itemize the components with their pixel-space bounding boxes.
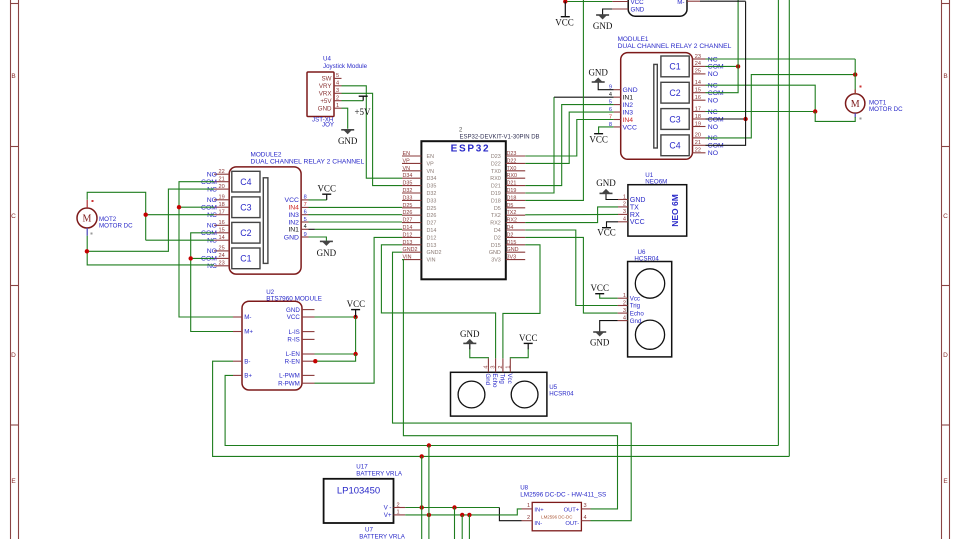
svg-text:Gnd: Gnd	[630, 318, 642, 325]
svg-text:3V3: 3V3	[491, 258, 501, 264]
svg-text:4: 4	[584, 515, 587, 521]
svg-text:4: 4	[623, 217, 626, 223]
svg-text:22: 22	[218, 169, 224, 175]
svg-text:D35: D35	[427, 184, 437, 190]
svg-text:23: 23	[695, 54, 701, 60]
svg-text:D33: D33	[427, 198, 437, 204]
svg-text:VP: VP	[403, 158, 411, 164]
svg-text:D: D	[943, 352, 948, 359]
svg-text:D27: D27	[427, 221, 437, 227]
svg-text:TX: TX	[630, 204, 639, 211]
svg-text:6: 6	[304, 210, 307, 216]
svg-text:BATTERY VRLA: BATTERY VRLA	[359, 534, 406, 539]
svg-text:COM: COM	[201, 230, 217, 237]
svg-text:+5V: +5V	[320, 98, 332, 105]
svg-text:15: 15	[218, 228, 224, 234]
svg-text:7: 7	[304, 202, 307, 208]
svg-text:8: 8	[304, 195, 307, 201]
svg-text:Vcc: Vcc	[630, 295, 640, 302]
svg-text:D19: D19	[491, 191, 501, 197]
svg-text:NO: NO	[207, 197, 217, 204]
svg-text:NC: NC	[207, 212, 217, 219]
svg-text:COM: COM	[201, 205, 217, 212]
svg-text:RX0: RX0	[490, 176, 501, 182]
svg-text:IN4: IN4	[623, 117, 634, 124]
svg-text:D13: D13	[403, 240, 413, 246]
svg-text:M: M	[83, 214, 92, 225]
svg-text:TX0: TX0	[491, 169, 501, 175]
svg-text:GND: GND	[284, 234, 299, 241]
svg-text:VP: VP	[427, 161, 435, 167]
svg-text:Trig: Trig	[499, 373, 506, 384]
svg-text:GND2: GND2	[403, 247, 418, 253]
svg-text:COM: COM	[708, 143, 724, 150]
svg-text:M-: M-	[677, 0, 684, 6]
svg-text:9: 9	[304, 232, 307, 238]
svg-text:14: 14	[218, 235, 224, 241]
svg-text:D22: D22	[491, 161, 501, 167]
svg-text:ESP32-DEVKIT-V1-30PIN DB: ESP32-DEVKIT-V1-30PIN DB	[460, 135, 540, 141]
svg-text:Gnd: Gnd	[484, 373, 491, 385]
svg-text:C3: C3	[240, 203, 251, 213]
svg-text:2: 2	[527, 515, 530, 521]
svg-text:C4: C4	[240, 177, 251, 187]
svg-text:Echo: Echo	[491, 373, 498, 388]
svg-text:3: 3	[623, 308, 626, 314]
svg-text:3V3: 3V3	[507, 255, 517, 261]
svg-text:GND: GND	[318, 105, 332, 112]
svg-text:4: 4	[304, 224, 307, 230]
svg-text:DUAL CHANNEL RELAY 2 CHANNEL: DUAL CHANNEL RELAY 2 CHANNEL	[618, 43, 732, 50]
svg-text:NO: NO	[207, 248, 217, 255]
svg-text:GND: GND	[631, 7, 645, 14]
svg-text:VCC: VCC	[631, 0, 645, 6]
svg-text:C: C	[943, 213, 948, 220]
svg-text:D13: D13	[427, 243, 437, 249]
svg-text:VCC: VCC	[519, 333, 538, 343]
svg-text:D15: D15	[507, 240, 517, 246]
svg-text:GND: GND	[460, 329, 480, 339]
svg-text:D5: D5	[507, 203, 514, 209]
svg-text:+5V: +5V	[354, 107, 371, 117]
svg-text:VCC: VCC	[317, 184, 336, 194]
svg-text:16: 16	[695, 95, 701, 101]
svg-text:Vcc: Vcc	[506, 373, 513, 383]
svg-text:D35: D35	[403, 181, 413, 187]
svg-text:VRX: VRX	[319, 91, 332, 98]
svg-text:C2: C2	[240, 228, 251, 238]
svg-text:VCC: VCC	[590, 283, 609, 293]
svg-text:GND: GND	[588, 68, 608, 78]
svg-text:VCC: VCC	[623, 124, 637, 131]
svg-text:1: 1	[336, 103, 339, 109]
svg-text:COM: COM	[201, 256, 217, 263]
svg-text:R-PWM: R-PWM	[278, 380, 300, 387]
svg-text:IN3: IN3	[623, 109, 634, 116]
svg-text:D21: D21	[491, 184, 501, 190]
svg-text:U17: U17	[356, 464, 368, 471]
svg-text:1: 1	[397, 510, 400, 516]
svg-text:1: 1	[623, 194, 626, 200]
svg-text:IN-: IN-	[534, 521, 542, 527]
svg-text:NC: NC	[708, 56, 718, 63]
svg-text:D32: D32	[427, 191, 437, 197]
svg-text:GND2: GND2	[427, 250, 442, 256]
svg-text:16: 16	[218, 220, 224, 226]
svg-text:2: 2	[336, 96, 339, 102]
svg-text:D21: D21	[507, 181, 517, 187]
svg-text:VCC: VCC	[285, 197, 299, 204]
svg-text:GND: GND	[489, 250, 501, 256]
svg-text:D23: D23	[507, 151, 517, 157]
svg-text:MOTOR DC: MOTOR DC	[99, 223, 133, 230]
svg-text:NO: NO	[708, 71, 718, 78]
svg-text:NEO 6M: NEO 6M	[670, 194, 680, 227]
svg-text:5: 5	[304, 217, 307, 223]
svg-text:25: 25	[218, 246, 224, 252]
svg-text:OUT+: OUT+	[564, 507, 580, 513]
svg-text:DUAL CHANNEL RELAY 2 CHANNEL: DUAL CHANNEL RELAY 2 CHANNEL	[251, 159, 365, 166]
svg-text:COM: COM	[201, 179, 217, 186]
svg-text:GND: GND	[338, 136, 358, 146]
svg-text:D26: D26	[403, 210, 413, 216]
svg-text:D34: D34	[427, 176, 437, 182]
svg-text:NO: NO	[708, 150, 718, 157]
svg-text:RX0: RX0	[507, 173, 518, 179]
svg-text:TX2: TX2	[507, 210, 517, 216]
svg-text:19: 19	[218, 195, 224, 201]
svg-text:2: 2	[623, 300, 626, 306]
svg-text:EN: EN	[403, 151, 411, 157]
svg-text:U8: U8	[520, 485, 528, 492]
svg-text:25: 25	[695, 69, 701, 75]
svg-text:VN: VN	[403, 166, 411, 172]
svg-text:17: 17	[695, 106, 701, 112]
svg-text:15: 15	[695, 88, 701, 94]
svg-text:COM: COM	[708, 116, 724, 123]
svg-text:MODULE2: MODULE2	[251, 152, 282, 159]
svg-text:E: E	[11, 478, 16, 485]
svg-text:VCC: VCC	[597, 228, 616, 238]
svg-text:23: 23	[218, 261, 224, 267]
svg-text:VCC: VCC	[589, 135, 608, 145]
svg-text:JOY: JOY	[322, 122, 334, 129]
svg-text:2: 2	[623, 202, 626, 208]
svg-text:5: 5	[336, 73, 339, 79]
svg-text:D23: D23	[491, 154, 501, 160]
svg-text:D14: D14	[403, 225, 413, 231]
svg-text:TX0: TX0	[507, 166, 517, 172]
svg-text:D15: D15	[491, 243, 501, 249]
svg-text:19: 19	[695, 121, 701, 127]
svg-text:4: 4	[623, 315, 626, 321]
svg-text:U7: U7	[365, 527, 373, 534]
svg-text:LP103450: LP103450	[337, 486, 380, 497]
svg-text:3: 3	[336, 88, 339, 94]
svg-text:L-EN: L-EN	[286, 351, 300, 358]
svg-text:GND: GND	[286, 307, 300, 314]
svg-text:NO: NO	[708, 124, 718, 131]
svg-text:NO: NO	[207, 172, 217, 179]
svg-text:GND: GND	[317, 248, 337, 258]
svg-text:RX2: RX2	[490, 221, 501, 227]
svg-text:VCC: VCC	[347, 299, 366, 309]
svg-text:NC: NC	[207, 263, 217, 270]
svg-text:D2: D2	[507, 232, 514, 238]
svg-text:D12: D12	[403, 232, 413, 238]
svg-text:L-PWM: L-PWM	[279, 373, 300, 380]
svg-text:NC: NC	[708, 135, 718, 142]
svg-text:C4: C4	[669, 141, 680, 151]
svg-text:L-IS: L-IS	[288, 329, 299, 336]
svg-text:VIN: VIN	[427, 258, 436, 264]
svg-text:17: 17	[218, 210, 224, 216]
svg-text:24: 24	[218, 253, 224, 259]
svg-text:SW: SW	[322, 76, 332, 83]
svg-text:D18: D18	[507, 195, 517, 201]
svg-text:VCC: VCC	[287, 314, 301, 321]
svg-text:2: 2	[498, 365, 504, 368]
svg-text:LM2596 DC-DC: LM2596 DC-DC	[541, 514, 572, 519]
svg-text:D32: D32	[403, 188, 413, 194]
svg-text:D2: D2	[494, 235, 501, 241]
svg-text:GND: GND	[596, 178, 616, 188]
svg-text:MOTOR DC: MOTOR DC	[869, 106, 903, 113]
svg-text:HCSR04: HCSR04	[634, 255, 659, 262]
svg-text:D19: D19	[507, 188, 517, 194]
svg-text:D4: D4	[494, 228, 501, 234]
svg-text:20: 20	[218, 184, 224, 190]
svg-text:V+: V+	[384, 512, 392, 519]
svg-text:21: 21	[218, 177, 224, 183]
svg-text:R-EN: R-EN	[285, 358, 300, 365]
svg-text:Joystick Module: Joystick Module	[323, 63, 368, 70]
svg-text:D34: D34	[403, 173, 413, 179]
svg-text:GND: GND	[630, 197, 646, 204]
svg-text:IN1: IN1	[288, 227, 299, 234]
svg-text:D26: D26	[427, 213, 437, 219]
svg-text:MODULE1: MODULE1	[618, 36, 649, 43]
svg-text:D5: D5	[494, 206, 501, 212]
svg-text:M-: M-	[244, 314, 251, 321]
svg-text:20: 20	[695, 133, 701, 139]
svg-text:ESP32: ESP32	[451, 144, 491, 155]
svg-text:LM2596 DC-DC - HW-411_SS: LM2596 DC-DC - HW-411_SS	[520, 492, 606, 499]
svg-text:B: B	[11, 73, 15, 80]
svg-text:RX: RX	[630, 212, 640, 219]
svg-text:3: 3	[623, 209, 626, 215]
svg-text:IN+: IN+	[534, 507, 544, 513]
svg-text:Echo: Echo	[630, 310, 645, 317]
svg-text:D27: D27	[403, 218, 413, 224]
svg-text:BATTERY VRLA: BATTERY VRLA	[356, 471, 403, 478]
svg-text:3: 3	[491, 365, 497, 368]
svg-text:D25: D25	[427, 206, 437, 212]
svg-text:NC: NC	[708, 109, 718, 116]
svg-text:U4: U4	[323, 56, 331, 63]
svg-text:1: 1	[505, 365, 511, 368]
svg-text:D22: D22	[507, 158, 517, 164]
svg-text:1: 1	[527, 503, 530, 509]
svg-text:IN1: IN1	[623, 94, 634, 101]
svg-text:E: E	[943, 478, 948, 485]
svg-text:24: 24	[695, 61, 701, 67]
svg-text:B-: B-	[244, 358, 250, 365]
svg-text:B: B	[943, 73, 947, 80]
svg-text:VCC: VCC	[630, 219, 645, 226]
svg-text:3: 3	[584, 503, 587, 509]
svg-text:IN4: IN4	[288, 205, 299, 212]
svg-text:18: 18	[695, 114, 701, 120]
svg-text:HCSR04: HCSR04	[549, 390, 574, 397]
svg-text:C1: C1	[240, 254, 251, 264]
svg-text:GND: GND	[593, 21, 613, 31]
svg-text:GND: GND	[507, 247, 519, 253]
svg-text:EN: EN	[427, 154, 435, 160]
svg-text:IN2: IN2	[288, 219, 299, 226]
svg-text:4: 4	[336, 81, 339, 87]
svg-text:V -: V -	[384, 505, 392, 512]
svg-text:VRY: VRY	[319, 83, 332, 90]
svg-text:18: 18	[218, 202, 224, 208]
svg-text:NEO6M: NEO6M	[645, 178, 667, 185]
svg-text:COM: COM	[708, 64, 724, 71]
svg-text:IN3: IN3	[288, 212, 299, 219]
svg-text:GND: GND	[590, 338, 610, 348]
svg-text:D25: D25	[403, 203, 413, 209]
svg-text:M+: M+	[244, 329, 253, 336]
svg-text:VCC: VCC	[555, 18, 574, 28]
svg-text:GND: GND	[623, 87, 638, 94]
svg-text:M: M	[851, 99, 860, 110]
svg-text:VN: VN	[427, 169, 435, 175]
svg-text:C2: C2	[669, 88, 680, 98]
svg-text:C3: C3	[669, 114, 680, 124]
svg-text:1: 1	[623, 293, 626, 299]
svg-text:NO: NO	[708, 98, 718, 105]
svg-text:NC: NC	[207, 186, 217, 193]
svg-text:IN2: IN2	[623, 102, 634, 109]
svg-text:D: D	[11, 352, 16, 359]
svg-text:B+: B+	[244, 373, 252, 380]
svg-text:R-IS: R-IS	[287, 337, 299, 344]
svg-text:21: 21	[695, 140, 701, 146]
svg-text:22: 22	[695, 148, 701, 154]
svg-text:D4: D4	[507, 225, 514, 231]
svg-text:D33: D33	[403, 195, 413, 201]
svg-text:2: 2	[397, 502, 400, 508]
svg-text:TX2: TX2	[491, 213, 501, 219]
svg-text:Trig: Trig	[630, 303, 641, 310]
svg-text:NC: NC	[708, 83, 718, 90]
svg-text:D18: D18	[491, 198, 501, 204]
svg-text:4: 4	[483, 365, 489, 368]
svg-text:RX2: RX2	[507, 218, 518, 224]
svg-text:NO: NO	[207, 223, 217, 230]
svg-text:OUT-: OUT-	[565, 521, 579, 527]
svg-text:C: C	[11, 213, 16, 220]
svg-text:BTS7960 MODULE: BTS7960 MODULE	[266, 296, 322, 303]
svg-text:C1: C1	[669, 62, 680, 72]
svg-text:14: 14	[695, 80, 701, 86]
svg-text:COM: COM	[708, 90, 724, 97]
svg-text:D12: D12	[427, 235, 437, 241]
svg-text:D14: D14	[427, 228, 437, 234]
svg-text:NC: NC	[207, 238, 217, 245]
